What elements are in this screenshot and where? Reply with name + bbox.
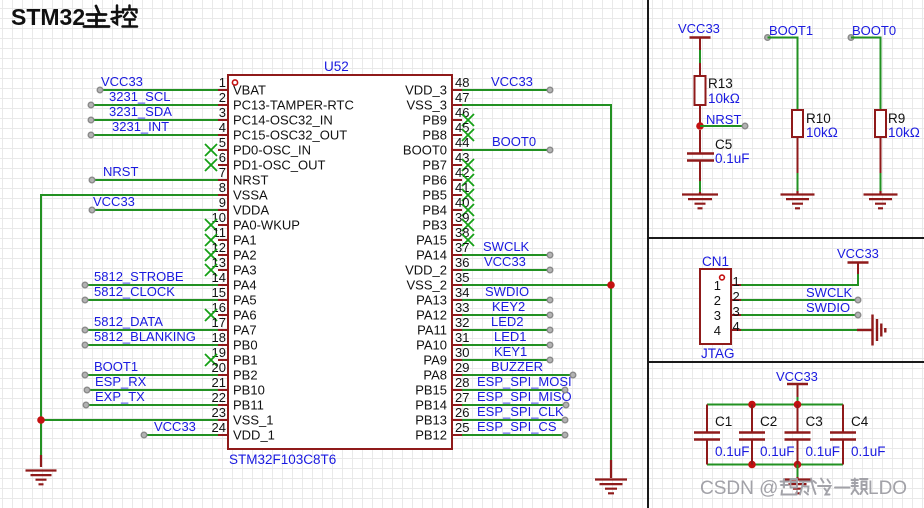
svg-text:2: 2 — [219, 90, 226, 105]
svg-text:PA1: PA1 — [233, 233, 257, 248]
svg-text:24: 24 — [212, 420, 226, 435]
svg-text:PD1-OSC_OUT: PD1-OSC_OUT — [233, 158, 326, 173]
wire VCC33 to pin 9 — [92, 209, 218, 211]
svg-text:2: 2 — [733, 289, 740, 304]
svg-text:PB4: PB4 — [422, 203, 447, 218]
U52 pin 23 VSS_1 — [218, 419, 228, 421]
U52 pin 46 PB9 — [452, 119, 462, 121]
U52 pin 29 PA8 — [452, 374, 462, 376]
svg-text:5812_CLOCK: 5812_CLOCK — [94, 284, 175, 299]
svg-text:46: 46 — [455, 105, 469, 120]
U52 pin 11 PA1 — [218, 239, 228, 241]
svg-text:47: 47 — [455, 90, 469, 105]
U52 pin 16 PA6 — [218, 314, 228, 316]
wire BOOT0 to R9 — [851, 38, 881, 111]
svg-text:7: 7 — [219, 165, 226, 180]
capacitor C1 — [706, 405, 708, 432]
terminal dot 3231_INT — [88, 132, 94, 138]
svg-text:NRST: NRST — [706, 112, 741, 127]
U52 pin 30 PA9 — [452, 359, 462, 361]
wire ESP_RX to pin 21 — [87, 389, 218, 391]
U52 pin 26 PB13 — [452, 419, 462, 421]
terminal dot VCC33 — [89, 207, 95, 213]
svg-text:2: 2 — [714, 293, 721, 308]
svg-text:VCC33: VCC33 — [776, 369, 818, 384]
wire R9 to ground — [880, 137, 882, 173]
svg-text:ESP_RX: ESP_RX — [95, 374, 147, 389]
U52 pin 5 PD0-OSC_IN — [218, 149, 228, 151]
svg-text:PB14: PB14 — [415, 398, 447, 413]
svg-text:28: 28 — [455, 375, 469, 390]
svg-text:0.1uF: 0.1uF — [806, 444, 841, 459]
U52 pin 8 VSSA — [218, 194, 228, 196]
svg-text:PD0-OSC_IN: PD0-OSC_IN — [233, 143, 311, 158]
svg-text:5812_BLANKING: 5812_BLANKING — [94, 329, 196, 344]
wire ESP_SPI_CS to pin 25 — [462, 434, 565, 436]
wire SWDIO to pin 34 — [462, 299, 550, 301]
svg-text:BUZZER: BUZZER — [491, 359, 543, 374]
svg-text:21: 21 — [212, 375, 226, 390]
svg-text:10kΩ: 10kΩ — [708, 91, 740, 106]
wire CN1 pin4 to earth ground — [741, 329, 857, 331]
svg-text:40: 40 — [455, 195, 469, 210]
svg-text:4: 4 — [219, 120, 226, 135]
svg-text:PA13: PA13 — [416, 293, 447, 308]
svg-text:PB2: PB2 — [233, 368, 258, 383]
CN1 pin 4 — [731, 329, 741, 331]
terminal dot 5812_CLOCK — [82, 297, 88, 303]
svg-text:VSS_3: VSS_3 — [407, 98, 447, 113]
no-connect pin 40 — [462, 204, 474, 216]
wire 3231_INT to pin 4 — [91, 134, 218, 136]
svg-text:6: 6 — [219, 150, 226, 165]
junction bottom rail C3 — [794, 461, 802, 469]
wire 5812_STROBE to pin 14 — [85, 284, 218, 286]
terminal dot BOOT0 — [547, 147, 553, 153]
terminal dot 5812_STROBE — [82, 282, 88, 288]
U52 pin 12 PA2 — [218, 254, 228, 256]
svg-text:ESP_SPI_CLK: ESP_SPI_CLK — [477, 404, 564, 419]
svg-text:35: 35 — [455, 270, 469, 285]
wire ESP_SPI_CLK to pin 26 — [462, 419, 565, 421]
U52 pin 28 PB15 — [452, 389, 462, 391]
svg-text:PA11: PA11 — [417, 323, 447, 338]
svg-text:BOOT1: BOOT1 — [769, 23, 813, 38]
capacitor C4 — [842, 405, 844, 432]
svg-text:STM32F103C8T6: STM32F103C8T6 — [229, 452, 336, 467]
U52 pin 41 PB5 — [452, 194, 462, 196]
U52 pin 31 PA10 — [452, 344, 462, 346]
U52 pin 40 PB4 — [452, 209, 462, 211]
U52 pin 32 PA11 — [452, 329, 462, 331]
svg-text:38: 38 — [455, 225, 469, 240]
U52 pin 45 PB8 — [452, 134, 462, 136]
capacitor C5 — [699, 130, 701, 153]
svg-text:15: 15 — [212, 285, 226, 300]
svg-text:0.1uF: 0.1uF — [760, 444, 795, 459]
no-connect pin 10 — [205, 219, 217, 231]
svg-text:3: 3 — [714, 308, 721, 323]
junction left ground rail — [37, 416, 45, 424]
svg-text:BOOT0: BOOT0 — [403, 143, 447, 158]
svg-text:PB7: PB7 — [422, 158, 447, 173]
op-amp U52 body (STM32F103C8T6) — [228, 75, 452, 449]
svg-text:PC13-TAMPER-RTC: PC13-TAMPER-RTC — [233, 98, 354, 113]
svg-text:PB0: PB0 — [233, 338, 258, 353]
no-connect pin 46 — [462, 114, 474, 126]
wire 5812_CLOCK to pin 15 — [85, 299, 218, 301]
U52 pin 3 PC14-OSC32_IN — [218, 119, 228, 121]
no-connect pin 38 — [462, 234, 474, 246]
svg-text:30: 30 — [455, 345, 469, 360]
wire KEY1 to pin 30 — [462, 359, 550, 361]
svg-text:STM32: STM32 — [11, 4, 85, 30]
svg-text:4: 4 — [714, 323, 721, 338]
CN1 pin 3 — [731, 314, 741, 316]
U52 pin 18 PB0 — [218, 344, 228, 346]
svg-text:LED2: LED2 — [491, 314, 524, 329]
terminal dot SWDIO — [547, 297, 553, 303]
svg-text:PA8: PA8 — [423, 368, 447, 383]
U52 pin 35 VSS_2 — [452, 284, 462, 286]
svg-text:39: 39 — [455, 210, 469, 225]
CN1 pin 1 — [731, 284, 741, 286]
svg-text:PB8: PB8 — [422, 128, 447, 143]
svg-text:R13: R13 — [708, 76, 733, 91]
wire VCC33 to R13 — [699, 50, 701, 63]
svg-text:VCC33: VCC33 — [93, 194, 135, 209]
svg-text:1: 1 — [733, 274, 740, 289]
junction top rail C3 — [794, 401, 802, 409]
svg-text:25: 25 — [455, 420, 469, 435]
terminal dot 5812_DATA — [82, 327, 88, 333]
wire VSS_1 pin 23 — [41, 419, 218, 421]
wire CN1 pin1 to VCC33 — [741, 274, 858, 285]
svg-text:CSDN @: CSDN @ — [700, 478, 778, 499]
terminal dot LED2 — [547, 327, 553, 333]
wire VSS_3 pin 47 to ground — [462, 105, 611, 462]
svg-text:VCC33: VCC33 — [101, 74, 143, 89]
wire VCC33 to pin 48 — [462, 89, 550, 91]
svg-text:23: 23 — [212, 405, 226, 420]
ground left (power ground) — [40, 455, 42, 467]
U52 pin 13 PA3 — [218, 269, 228, 271]
terminal dot 3231_SDA — [88, 117, 94, 123]
wire 3231_SCL to pin 2 — [91, 104, 218, 106]
svg-text:PA2: PA2 — [233, 248, 257, 263]
svg-text:0.1uF: 0.1uF — [715, 444, 750, 459]
svg-text:PA0-WKUP: PA0-WKUP — [233, 218, 300, 233]
svg-text:18: 18 — [212, 330, 226, 345]
terminal dot SWCLK — [855, 297, 861, 303]
svg-text:VDD_3: VDD_3 — [405, 83, 447, 98]
no-connect pin 5 — [205, 144, 217, 156]
CN1 pin-1 indicator — [720, 275, 725, 280]
U52 pin 25 PB12 — [452, 434, 462, 436]
separator vertical — [647, 0, 649, 508]
U52 pin 21 PB10 — [218, 389, 228, 391]
svg-text:43: 43 — [455, 150, 469, 165]
no-connect pin 39 — [462, 219, 474, 231]
CN1 pin 2 — [731, 299, 741, 301]
svg-text:PA9: PA9 — [423, 353, 447, 368]
svg-text:10kΩ: 10kΩ — [806, 125, 838, 140]
U52 pin 9 VDDA — [218, 209, 228, 211]
wire BOOT1 to R10 — [768, 38, 798, 111]
svg-text:C1: C1 — [715, 414, 732, 429]
watermark CSDN — [700, 478, 907, 499]
svg-text:C5: C5 — [715, 137, 732, 152]
no-connect pin 16 — [205, 309, 217, 321]
wire BUZZER to pin 29 — [462, 374, 573, 376]
svg-text:VCC33: VCC33 — [678, 21, 720, 36]
svg-text:3231_SCL: 3231_SCL — [109, 89, 170, 104]
U52 pin 48 VDD_3 — [452, 89, 462, 91]
terminal dot NRST — [742, 123, 748, 129]
svg-text:VCC33: VCC33 — [837, 246, 879, 261]
svg-text:VCC33: VCC33 — [491, 74, 533, 89]
U52 pin 10 PA0-WKUP — [218, 224, 228, 226]
svg-text:PA5: PA5 — [233, 293, 257, 308]
wire 5812_BLANKING to pin 18 — [85, 344, 218, 346]
svg-text:VDD_2: VDD_2 — [405, 263, 447, 278]
svg-text:0.1uF: 0.1uF — [851, 444, 886, 459]
svg-text:PA3: PA3 — [233, 263, 257, 278]
svg-text:3: 3 — [733, 304, 740, 319]
svg-text:20: 20 — [212, 360, 226, 375]
wire NRST to pin 7 — [92, 179, 218, 181]
resistor R13 — [699, 63, 701, 76]
svg-text:EXP_TX: EXP_TX — [95, 389, 145, 404]
no-connect pin 11 — [205, 234, 217, 246]
svg-text:ESP_SPI_CS: ESP_SPI_CS — [477, 419, 557, 434]
separator horizontal 2 — [648, 361, 924, 363]
capacitor C2 — [751, 405, 753, 432]
svg-text:33: 33 — [455, 300, 469, 315]
svg-text:JTAG: JTAG — [701, 346, 735, 361]
svg-text:44: 44 — [455, 135, 469, 150]
svg-text:10kΩ: 10kΩ — [888, 125, 920, 140]
wire ESP_SPI_MISO to pin 27 — [462, 404, 566, 406]
terminal dot BOOT1 — [765, 35, 771, 41]
no-connect pin 19 — [205, 354, 217, 366]
U52 pin 34 PA13 — [452, 299, 462, 301]
svg-text:11: 11 — [213, 225, 227, 240]
svg-text:VSSA: VSSA — [233, 188, 268, 203]
terminal dot VCC33 — [141, 432, 147, 438]
svg-text:PB6: PB6 — [422, 173, 447, 188]
terminal dot ESP_SPI_CS — [562, 432, 568, 438]
svg-text:PA15: PA15 — [416, 233, 447, 248]
svg-text:PA6: PA6 — [233, 308, 257, 323]
svg-text:3231_SDA: 3231_SDA — [109, 104, 172, 119]
wire C5 to ground — [699, 162, 701, 182]
svg-text:31: 31 — [455, 330, 469, 345]
svg-text:KEY1: KEY1 — [494, 344, 527, 359]
svg-text:1: 1 — [714, 278, 721, 293]
U52 pin 38 PA15 — [452, 239, 462, 241]
resistor R10 — [792, 110, 803, 137]
svg-text:37: 37 — [455, 240, 469, 255]
U52 pin 7 NRST — [218, 179, 228, 181]
svg-text:PB10: PB10 — [233, 383, 265, 398]
svg-text:PB11: PB11 — [233, 398, 264, 413]
svg-text:C2: C2 — [760, 414, 777, 429]
junction top rail C2 — [748, 401, 756, 409]
svg-text:PB5: PB5 — [422, 188, 447, 203]
wire VCC33 to cap rail — [797, 397, 799, 405]
no-connect pin 13 — [205, 264, 217, 276]
svg-text:5812_DATA: 5812_DATA — [94, 314, 163, 329]
U52 pin 4 PC15-OSC32_OUT — [218, 134, 228, 136]
svg-text:LDO: LDO — [868, 478, 907, 499]
terminal dot ESP_SPI_MOSI — [562, 387, 568, 393]
U52 pin 24 VDD_1 — [218, 434, 228, 436]
wire KEY2 to pin 33 — [462, 314, 550, 316]
U52 pin 20 PB2 — [218, 374, 228, 376]
svg-text:VCC33: VCC33 — [484, 254, 526, 269]
svg-text:LED1: LED1 — [494, 329, 527, 344]
wire VSS_2 pin 35 — [462, 284, 611, 286]
svg-text:9: 9 — [219, 195, 226, 210]
svg-text:SWCLK: SWCLK — [806, 285, 853, 300]
U52 pin-1 indicator — [232, 80, 237, 85]
svg-text:1: 1 — [219, 75, 226, 90]
svg-text:SWDIO: SWDIO — [806, 300, 850, 315]
svg-text:4: 4 — [733, 319, 740, 334]
U52 pin 37 PA14 — [452, 254, 462, 256]
no-connect pin 6 — [205, 159, 217, 171]
wire VCC33 to pin 1 — [100, 89, 218, 91]
ground right (power ground) — [610, 460, 612, 478]
wire 3231_SDA to pin 3 — [91, 119, 218, 121]
U52 pin 17 PA7 — [218, 329, 228, 331]
terminal dot KEY1 — [547, 357, 553, 363]
U52 pin 27 PB14 — [452, 404, 462, 406]
terminal dot ESP_SPI_MISO — [563, 402, 569, 408]
terminal dot ESP_SPI_CLK — [562, 417, 568, 423]
terminal dot VCC33 — [547, 87, 553, 93]
svg-text:PB3: PB3 — [422, 218, 447, 233]
U52 pin 2 PC13-TAMPER-RTC — [218, 104, 228, 106]
svg-text:14: 14 — [212, 270, 226, 285]
resistor R9 — [875, 110, 886, 137]
svg-text:29: 29 — [455, 360, 469, 375]
wire VSSA pin 8 to ground rail — [41, 195, 218, 457]
terminal dot EXP_TX — [83, 402, 89, 408]
svg-text:PB13: PB13 — [415, 413, 447, 428]
svg-text:PA14: PA14 — [416, 248, 447, 263]
terminal dot 3231_SCL — [88, 102, 94, 108]
ground R10 (power ground) — [796, 191, 798, 194]
svg-text:0.1uF: 0.1uF — [715, 151, 750, 166]
U52 pin 33 PA12 — [452, 314, 462, 316]
svg-text:BOOT0: BOOT0 — [492, 134, 536, 149]
no-connect pin 42 — [462, 174, 474, 186]
wire NRST — [700, 125, 745, 127]
wire cap rail to ground — [797, 465, 799, 478]
terminal dot SWCLK — [547, 252, 553, 258]
no-connect pin 45 — [462, 129, 474, 141]
ground decoupling (power ground) — [796, 477, 798, 479]
terminal dot BOOT0 — [848, 35, 854, 41]
terminal dot BUZZER — [570, 372, 576, 378]
U52 pin 47 VSS_3 — [452, 104, 462, 106]
svg-text:PA10: PA10 — [416, 338, 447, 353]
wire VCC33 to pin 36 — [462, 269, 550, 271]
wire SWDIO — [741, 314, 855, 316]
terminal dot ESP_RX — [84, 387, 90, 393]
svg-text:VDD_1: VDD_1 — [233, 428, 275, 443]
wire BOOT1 to pin 20 — [85, 374, 218, 376]
U52 pin 44 BOOT0 — [452, 149, 462, 151]
terminal dot VCC33 — [97, 87, 103, 93]
svg-text:PC15-OSC32_OUT: PC15-OSC32_OUT — [233, 128, 347, 143]
U52 pin 36 VDD_2 — [452, 269, 462, 271]
svg-text:3231_INT: 3231_INT — [112, 119, 169, 134]
junction right ground rail — [607, 281, 615, 289]
svg-text:R9: R9 — [888, 111, 905, 126]
U52 pin 22 PB11 — [218, 404, 228, 406]
svg-text:45: 45 — [455, 120, 469, 135]
svg-text:5: 5 — [219, 135, 226, 150]
svg-text:KEY2: KEY2 — [492, 299, 525, 314]
U52 pin 15 PA5 — [218, 299, 228, 301]
svg-text:PB12: PB12 — [415, 428, 447, 443]
U52 pin 1 VBAT — [218, 89, 228, 91]
svg-text:41: 41 — [455, 180, 469, 195]
wire SWCLK — [741, 299, 855, 301]
svg-text:36: 36 — [455, 255, 469, 270]
U52 pin 6 PD1-OSC_OUT — [218, 164, 228, 166]
svg-text:48: 48 — [455, 75, 469, 90]
ground C5 (power ground) — [699, 192, 701, 194]
svg-text:VCC33: VCC33 — [154, 419, 196, 434]
wire SWCLK to pin 37 — [462, 254, 550, 256]
svg-text:34: 34 — [455, 285, 469, 300]
svg-text:17: 17 — [212, 315, 226, 330]
wire VCC33 to pin 24 — [144, 434, 218, 436]
svg-text:PA4: PA4 — [233, 278, 257, 293]
ground R9 (power ground) — [879, 191, 881, 194]
svg-text:5812_STROBE: 5812_STROBE — [94, 269, 184, 284]
svg-text:SWDIO: SWDIO — [485, 284, 529, 299]
svg-text:U52: U52 — [324, 59, 349, 74]
no-connect pin 12 — [205, 249, 217, 261]
svg-text:8: 8 — [219, 180, 226, 195]
terminal dot VCC33 — [547, 267, 553, 273]
U52 pin 43 PB7 — [452, 164, 462, 166]
no-connect pin 43 — [462, 159, 474, 171]
svg-text:3: 3 — [219, 105, 226, 120]
separator horizontal 1 — [648, 237, 924, 239]
svg-text:R10: R10 — [806, 111, 831, 126]
wire LED1 to pin 31 — [462, 344, 550, 346]
svg-text:PA12: PA12 — [416, 308, 447, 323]
wire BOOT0 to pin 44 — [462, 149, 550, 151]
svg-text:26: 26 — [455, 405, 469, 420]
terminal dot NRST — [89, 177, 95, 183]
wire LED2 to pin 32 — [462, 329, 550, 331]
svg-text:22: 22 — [212, 390, 226, 405]
wire cap bottom rail — [707, 464, 843, 466]
svg-text:ESP_SPI_MOSI: ESP_SPI_MOSI — [477, 374, 572, 389]
svg-text:C3: C3 — [806, 414, 823, 429]
svg-text:VBAT: VBAT — [233, 83, 266, 98]
svg-text:27: 27 — [455, 390, 469, 405]
terminal dot KEY2 — [547, 312, 553, 318]
U52 pin 42 PB6 — [452, 179, 462, 181]
